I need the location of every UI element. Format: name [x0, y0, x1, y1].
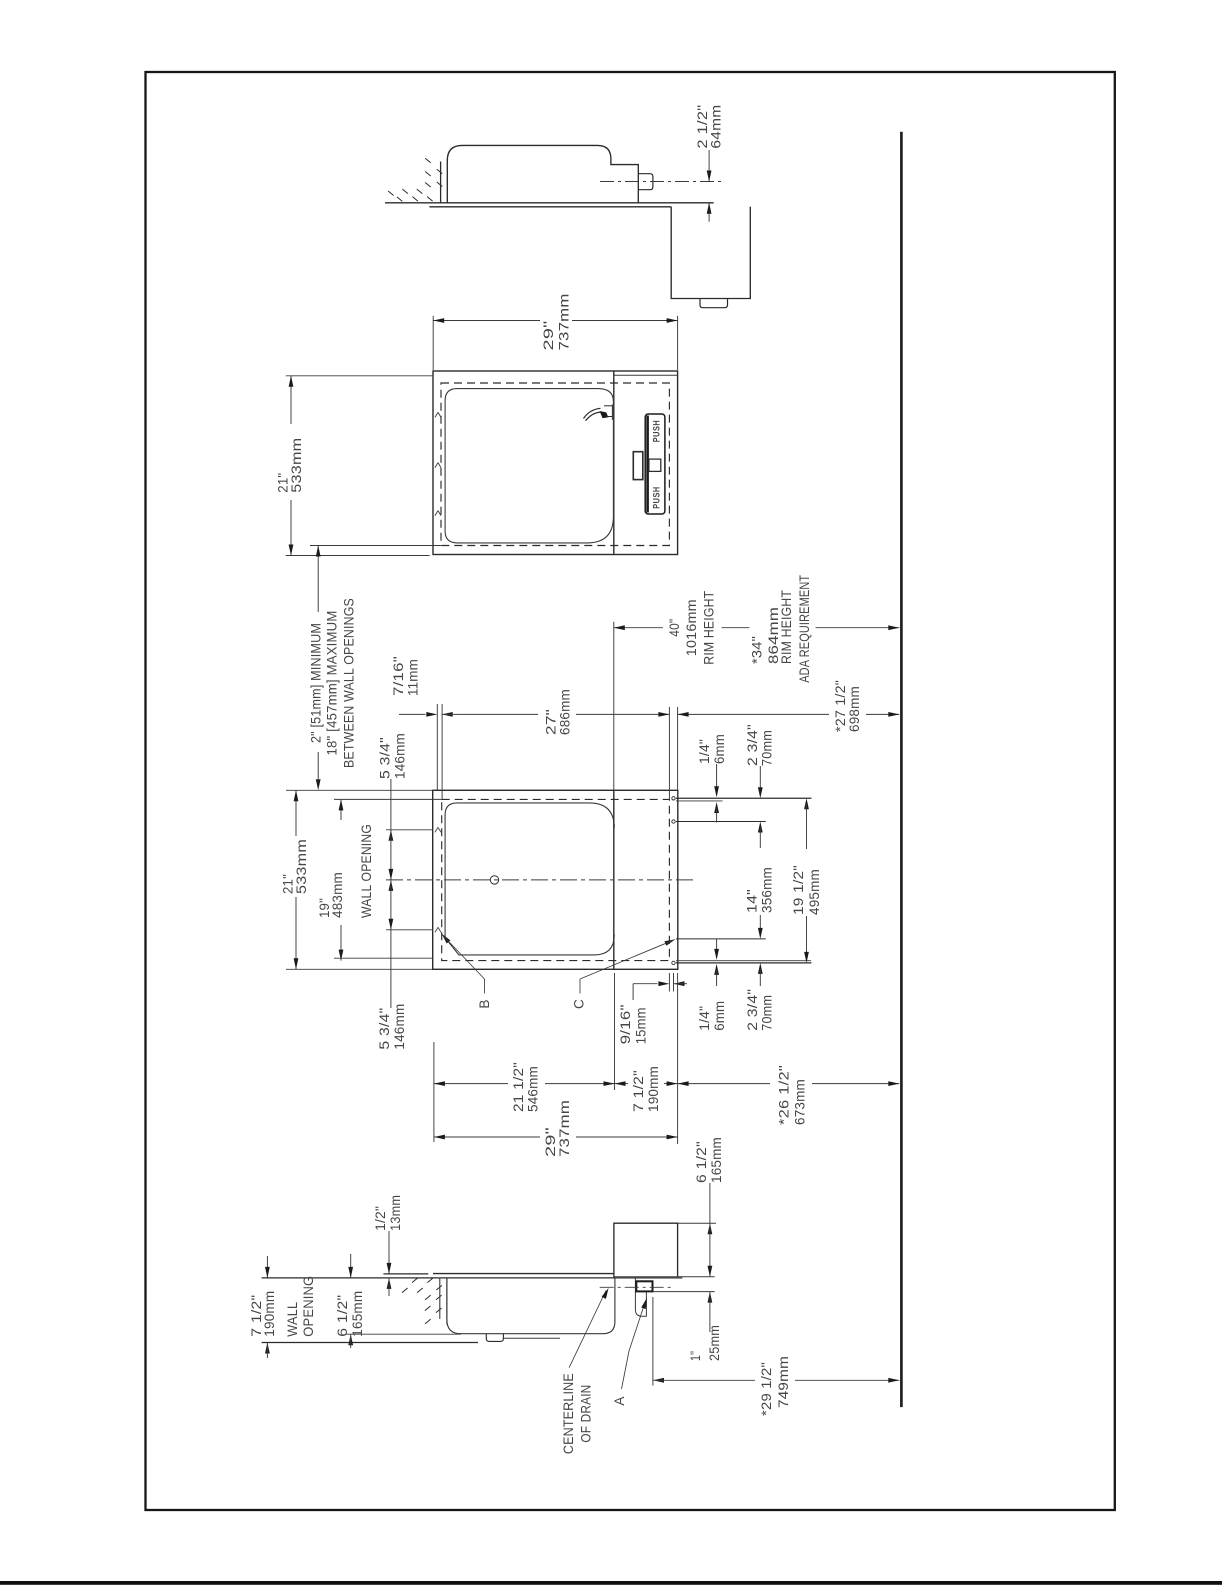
side view A: bubbler	[638, 174, 653, 190]
svg-text:2" [51mm] MINIMUM18" [457mm] M: 2" [51mm] MINIMUM18" [457mm] MAXIMUMBETW…	[309, 598, 357, 768]
side view D: deck line	[433, 1273, 614, 1275]
dimension 21 1/2in 546mm	[434, 1083, 508, 1085]
side view D: wall line	[262, 1277, 440, 1279]
svg-text:5 3/4"146mm: 5 3/4"146mm	[377, 1004, 407, 1050]
side view D: wall opening bottom line	[262, 1342, 478, 1344]
side view D: trap under deck	[635, 1279, 646, 1317]
dimension 19in 483mm wall opening height	[340, 799, 342, 820]
side view A: drain stub	[700, 299, 728, 308]
side view D: body bottom extension line	[346, 1333, 461, 1335]
dimension 1in 25mm	[708, 1292, 713, 1303]
middle view: drain circle	[490, 876, 498, 884]
svg-text:9/16"15mm: 9/16"15mm	[618, 1004, 648, 1044]
plan view: outer rect	[433, 371, 678, 555]
plan view: PUSH bar center square	[649, 459, 661, 471]
page bottom black band	[0, 1581, 1222, 1585]
dimension 6 1/2in 165mm left	[350, 1254, 352, 1278]
plan view: basin inner outline	[445, 389, 613, 543]
side view A: wall face line	[440, 162, 442, 203]
dimension *26 1/2in 673mm	[678, 1083, 770, 1085]
side view D: wall hatch	[412, 1278, 418, 1283]
side view D: wall line continues right (deck bottom)	[440, 1277, 683, 1279]
middle view: rim line (front edge)	[613, 790, 615, 969]
plan view: bubbler (faucet)	[584, 408, 601, 418]
svg-text:2 3/4"70mm: 2 3/4"70mm	[745, 724, 775, 766]
plan view: divider line basin/panel	[613, 371, 615, 555]
middle view: hole reference lines right	[676, 797, 811, 799]
plan view: left edge slot ticks	[435, 412, 438, 417]
label C with leader	[664, 937, 676, 946]
svg-text:19"483mmWALL OPENING: 19"483mmWALL OPENING	[317, 824, 374, 918]
side view D: bubbler bottom reference line	[653, 1291, 715, 1293]
side view D: chiller box	[614, 1223, 678, 1278]
label B with leader	[440, 932, 451, 944]
svg-text:*29 1/2"749mm: *29 1/2"749mm	[759, 1356, 791, 1416]
svg-text:5 3/4"146mm: 5 3/4"146mm	[378, 733, 408, 779]
middle view: basin outline with chamfer corner	[445, 803, 614, 955]
extension lines below middle view	[433, 1042, 435, 1142]
dimension 29in 737mm (unit depth)	[432, 316, 434, 370]
floor line	[900, 132, 903, 1407]
side view D: body outline	[447, 1278, 615, 1334]
dimension 2 3/4in 70mm top right	[759, 766, 761, 791]
dimension 21in 533mm middle view height	[286, 789, 433, 791]
svg-text:1/4"6mm: 1/4"6mm	[697, 1001, 727, 1031]
dimension 7 1/2in 190mm wall opening	[266, 1256, 268, 1278]
svg-text:21"533mm: 21"533mm	[281, 839, 310, 894]
svg-text:1"25mm: 1"25mm	[688, 1325, 722, 1361]
middle view: wall-opening dashed rect	[442, 799, 670, 960]
svg-text:1/2"13mm: 1/2"13mm	[373, 1195, 403, 1231]
side view A: bubbler centerline	[600, 181, 724, 183]
middle view: left edge slot ticks	[435, 827, 438, 832]
middle view: slot reference lines	[386, 829, 433, 831]
svg-text:2 1/2"64mm: 2 1/2"64mm	[695, 105, 724, 149]
svg-text:6 1/2"165mm: 6 1/2"165mm	[335, 1291, 365, 1337]
svg-text:7/16"11mm: 7/16"11mm	[391, 656, 421, 696]
side view A: cooler body outline	[447, 145, 638, 202]
plan view dimension 21in 533mm	[286, 375, 433, 377]
dimension 2 1/2in 64mm (bubbler height)	[708, 150, 710, 182]
side view D: bubbler (heavy)	[636, 1281, 652, 1291]
dimension 7 1/2in 190mm	[615, 1083, 629, 1085]
svg-text:21"533mm: 21"533mm	[276, 438, 305, 493]
middle view: centerline	[386, 879, 694, 881]
svg-text:CENTERLINEOF DRAIN: CENTERLINEOF DRAIN	[561, 1373, 594, 1454]
side view A: deck top line	[385, 202, 714, 204]
svg-text:40"1016mmRIM HEIGHT: 40"1016mmRIM HEIGHT	[667, 591, 717, 665]
dimension 9/16in 15mm	[633, 983, 657, 985]
dimension 2in min 18in max between wall openings	[310, 545, 441, 547]
svg-text:*27 1/2"698mm: *27 1/2"698mm	[833, 680, 862, 732]
side view A: lower box (waste housing)	[671, 207, 750, 299]
dimension 29in 737mm bottom	[434, 1136, 540, 1138]
dimension 40in 1016mm rim height and 34in ADA	[613, 622, 615, 791]
side view A: deck bottom line	[429, 206, 671, 208]
svg-text:27"686mm: 27"686mm	[544, 689, 573, 735]
svg-text:6 1/2"165mm: 6 1/2"165mm	[694, 1137, 724, 1183]
dimension 5 3/4in 146mm slot spacing (top and bottom)	[390, 779, 392, 830]
plan view: side button	[633, 452, 643, 480]
svg-text:*26 1/2"673mm: *26 1/2"673mm	[777, 1065, 808, 1125]
side view D: bubbler centerline	[600, 1286, 673, 1288]
dimension *29 1/2in 749mm	[652, 1297, 654, 1386]
side view D: drain stub and pipe	[486, 1334, 503, 1342]
svg-text:21 1/2"546mm: 21 1/2"546mm	[511, 1062, 541, 1112]
svg-text:19 1/2"495mm: 19 1/2"495mm	[791, 865, 822, 915]
svg-text:PUSH: PUSH	[652, 486, 662, 509]
drawing border frame	[146, 72, 1115, 1510]
dimension 19 1/2in 495mm hole spacing	[804, 798, 809, 809]
svg-text:7 1/2"190mmWALLOPENING: 7 1/2"190mmWALLOPENING	[249, 1276, 316, 1337]
dimension 1/2in 13mm	[388, 1231, 390, 1274]
svg-text:1/4"6mm: 1/4"6mm	[697, 734, 727, 764]
dimension 7/16in 11mm and 27in 686mm wall opening width	[436, 704, 438, 790]
plan view: second top line on push panel	[614, 374, 678, 376]
svg-text:A: A	[612, 1396, 627, 1406]
svg-text:PUSH: PUSH	[652, 420, 662, 443]
dimension 6 1/2in 165mm chiller box	[709, 1183, 711, 1223]
svg-text:29"737mm: 29"737mm	[541, 294, 572, 351]
dimension *27 1/2in 698mm	[678, 713, 829, 715]
plan view: PUSH bar	[645, 414, 665, 514]
plan view: wall-opening dashed rect	[441, 383, 669, 546]
middle view: mounting holes right side	[672, 797, 675, 800]
svg-text:14"356mm: 14"356mm	[745, 867, 775, 913]
dimension 1/4in 6mm top right	[716, 764, 718, 790]
side view D: bracket verticals	[439, 1278, 441, 1319]
side view D: hanger bracket line (1/2in offset)	[383, 1273, 428, 1275]
svg-text:7 1/2"190mm: 7 1/2"190mm	[631, 1066, 661, 1112]
svg-text:C: C	[572, 999, 587, 1009]
side view A: wall hatch	[425, 158, 431, 163]
svg-text:2 3/4"70mm: 2 3/4"70mm	[745, 989, 775, 1031]
svg-text:29"737mm: 29"737mm	[543, 1100, 572, 1157]
label CENTERLINE OF DRAIN with leader	[569, 1291, 606, 1368]
extension lines right of middle view top	[668, 707, 670, 799]
svg-text:B: B	[477, 999, 492, 1008]
label A with leader	[622, 1351, 630, 1389]
dimension 1/4in 6mm bottom right	[716, 939, 718, 951]
svg-text:*34"864mmRIM HEIGHTADA REQUIRE: *34"864mmRIM HEIGHTADA REQUIREMENT	[750, 575, 812, 683]
middle view: outer rect	[433, 790, 678, 969]
